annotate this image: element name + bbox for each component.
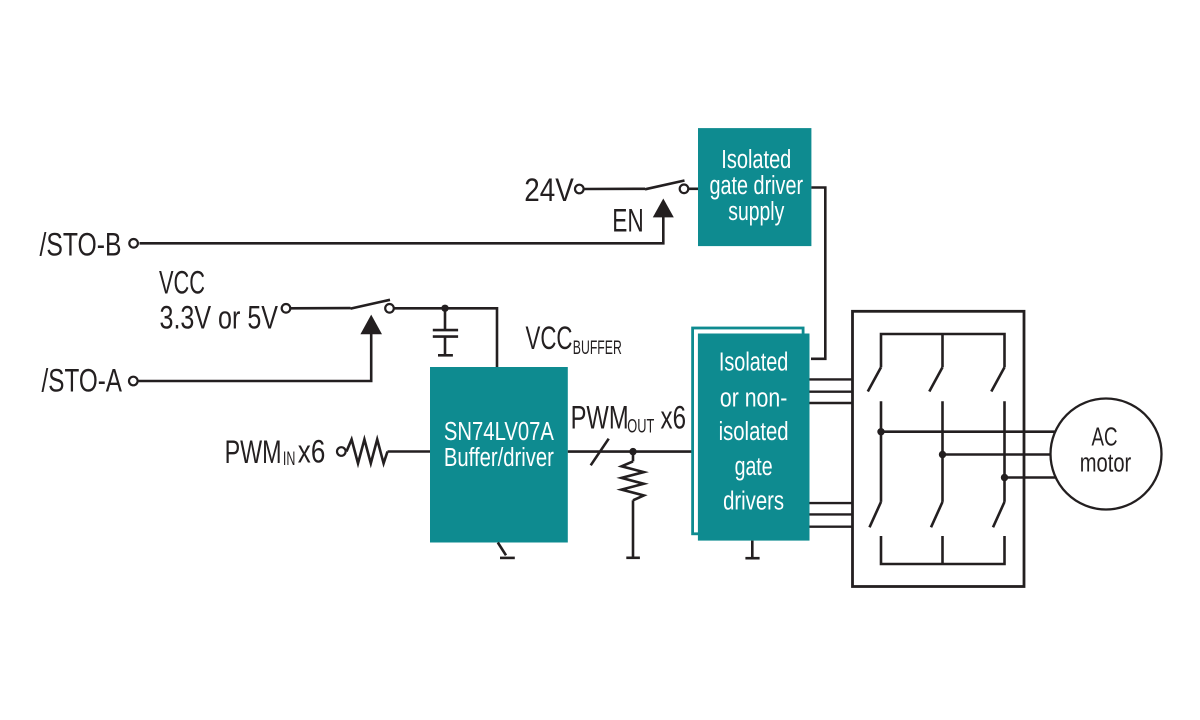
bus slash PWM OUT xyxy=(591,439,609,466)
junction VCC node xyxy=(441,305,448,312)
svg-text:SN74LV07A: SN74LV07A xyxy=(444,418,554,446)
wire switch to SN74LV07A VCC pin xyxy=(394,308,497,367)
svg-text:EN: EN xyxy=(612,203,644,239)
wire gate line 3 xyxy=(810,402,854,404)
wire 24V to switch xyxy=(584,188,645,191)
junction phase C xyxy=(1001,474,1008,481)
ground R2 xyxy=(626,556,640,559)
ground SN74LV07A xyxy=(498,543,515,558)
wire /STO-B to EN arrow xyxy=(140,216,664,243)
wire R1 to buffer xyxy=(388,450,432,453)
switch S1 blade xyxy=(645,181,685,190)
block isolated gate driver supply xyxy=(698,128,811,246)
svg-text:x6: x6 xyxy=(298,433,326,469)
wire phase B to motor xyxy=(943,453,1055,456)
wire gate line 4 xyxy=(810,502,854,504)
stub top leg 2 xyxy=(941,334,944,367)
VCC BUFFER label xyxy=(526,320,622,359)
wire phase C mid xyxy=(1003,401,1006,502)
svg-text:isolated: isolated xyxy=(719,418,789,446)
svg-text:3.3V or 5V: 3.3V or 5V xyxy=(160,300,279,336)
wire phase A to motor xyxy=(881,430,1058,433)
wire gate line 1 xyxy=(810,378,854,380)
svg-text:IN: IN xyxy=(283,449,296,470)
svg-text:gate driver: gate driver xyxy=(710,172,804,200)
arrow STO-A (enable) xyxy=(360,315,382,335)
block gate drivers back layer xyxy=(693,328,804,534)
wire phase B mid xyxy=(941,401,944,502)
terminal /STO-A xyxy=(129,377,138,386)
stub bottom leg 2 xyxy=(941,536,944,564)
ground gate drivers xyxy=(745,541,759,559)
wire switch to supply box xyxy=(689,188,700,191)
switch S2 blade xyxy=(351,300,391,309)
wire supply output to gate drivers xyxy=(811,188,825,359)
junction PWM OUT node xyxy=(629,448,636,455)
switch Q5 high-side blade xyxy=(991,367,1004,391)
junction phase A xyxy=(877,428,884,435)
wire phase C to motor xyxy=(1005,476,1059,479)
switch Q2 low-side blade xyxy=(870,502,882,527)
PWM IN x6 label xyxy=(225,433,326,470)
switch Q4 low-side blade xyxy=(931,502,943,527)
capacitor C1 xyxy=(433,308,458,354)
terminal 24V xyxy=(575,185,584,194)
svg-text:Isolated: Isolated xyxy=(721,146,791,174)
wire phase A mid xyxy=(880,401,883,502)
wire gate line 5 xyxy=(810,513,854,515)
svg-text:PWM: PWM xyxy=(225,434,282,470)
svg-text:supply: supply xyxy=(728,198,784,226)
svg-text:gate: gate xyxy=(735,453,773,481)
wire gate line 6 xyxy=(810,526,854,528)
wire VCC to switch xyxy=(291,307,351,310)
junction phase B xyxy=(939,451,946,458)
svg-text:drivers: drivers xyxy=(723,488,784,516)
svg-text:24V: 24V xyxy=(524,172,574,208)
PWM OUT x6 label xyxy=(571,400,686,438)
block SN74LV07A buffer/driver xyxy=(430,367,568,543)
svg-text:or non-: or non- xyxy=(720,385,788,413)
wire /STO-A to arrow xyxy=(139,333,372,381)
wire gate line 2 xyxy=(810,391,854,393)
switch S2 contact xyxy=(385,304,394,313)
wire buffer output to gate drivers xyxy=(568,450,692,453)
svg-text:PWM: PWM xyxy=(571,400,629,436)
resistor R2 (pull-down) xyxy=(622,452,644,557)
terminal PWM IN xyxy=(337,447,346,456)
switch Q1 high-side blade xyxy=(868,367,881,391)
arrow EN (enable) xyxy=(653,199,674,218)
svg-text:Isolated: Isolated xyxy=(719,349,789,377)
switch Q3 high-side blade xyxy=(929,367,942,391)
bus DC+ top xyxy=(881,334,1005,367)
svg-text:VCC: VCC xyxy=(159,265,205,301)
motor M1 AC motor xyxy=(1051,399,1162,510)
terminal VCC xyxy=(282,304,291,313)
svg-text:VCC: VCC xyxy=(526,320,573,356)
svg-text:/STO-B: /STO-B xyxy=(40,227,122,263)
switch S1 contact xyxy=(680,185,689,194)
bus DC- bottom xyxy=(881,536,1005,564)
svg-text:motor: motor xyxy=(1080,450,1132,478)
svg-text:AC: AC xyxy=(1092,424,1118,452)
resistor R1 (series) xyxy=(347,439,388,463)
ground cap xyxy=(438,354,453,357)
switch Q6 low-side blade xyxy=(993,502,1005,527)
svg-text:x6: x6 xyxy=(661,400,687,436)
svg-text:/STO-A: /STO-A xyxy=(42,363,123,399)
block inverter bridge xyxy=(853,311,1025,586)
block isolated or non-isolated gate drivers xyxy=(698,334,810,541)
svg-text:Buffer/driver: Buffer/driver xyxy=(444,444,554,472)
terminal /STO-B xyxy=(129,239,138,248)
svg-text:BUFFER: BUFFER xyxy=(573,338,622,359)
svg-text:OUT: OUT xyxy=(627,417,654,438)
